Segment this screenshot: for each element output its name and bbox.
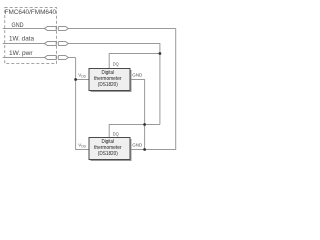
connector female 1W.pwr pin [58, 55, 68, 59]
wire 1W.pwr label stub [3, 57, 45, 59]
svg-text:GND: GND [132, 142, 143, 147]
thermometer U1 (DS1820) body [89, 69, 130, 91]
wire GND label stub [3, 28, 45, 30]
wire 1W.data label stub [3, 43, 45, 45]
svg-text:FMC640/FMM640: FMC640/FMM640 [5, 9, 57, 16]
svg-text:thermometer: thermometer [94, 145, 122, 151]
wire DQ branch to thermometer 1 [109, 54, 160, 69]
connector female 1W.data pin [58, 41, 68, 45]
svg-text:VDD: VDD [78, 142, 86, 148]
wire 1W.pwr net horizontal stub [68, 57, 75, 59]
svg-text:(DS1820): (DS1820) [98, 151, 118, 157]
thermometer U2 shadow [91, 139, 132, 161]
wire 1W.data net vertical [159, 43, 161, 125]
junction dot data/DQ1 [159, 52, 162, 55]
junction dot pwr/VDD1 [74, 78, 77, 81]
svg-text:1W. data: 1W. data [9, 36, 35, 42]
connector male GND pin [45, 26, 57, 30]
wire GND branch from thermometer 1 [131, 80, 145, 150]
svg-text:thermometer: thermometer [94, 76, 122, 82]
thermometer U1 shadow [91, 70, 132, 92]
svg-text:DQ: DQ [113, 62, 119, 67]
svg-text:1W. pwr: 1W. pwr [9, 51, 33, 57]
wire DQ branch to thermometer 2 [109, 125, 160, 138]
wire VDD pin thermometer 1 [76, 79, 89, 81]
svg-text:(DS1820): (DS1820) [98, 82, 118, 88]
connector male 1W.data pin [45, 41, 57, 45]
connector male 1W.pwr pin [45, 55, 57, 59]
junction dot GND branch to GND rail [143, 148, 146, 151]
wire 1W.pwr net left vertical [76, 58, 89, 150]
wire GND net right vertical [131, 29, 176, 150]
svg-text:DQ: DQ [113, 132, 119, 137]
svg-text:VDD: VDD [78, 72, 86, 78]
junction dot on DQ2 branch crossing [143, 123, 146, 126]
wire 1W.data net horizontal [68, 43, 159, 45]
thermometer U2 (DS1820) body [89, 138, 130, 160]
wire GND net horizontal [68, 28, 175, 30]
connector female GND pin [58, 26, 68, 30]
module FMC640/FMM640 dashed enclosure [5, 8, 57, 64]
svg-text:GND: GND [132, 72, 143, 77]
